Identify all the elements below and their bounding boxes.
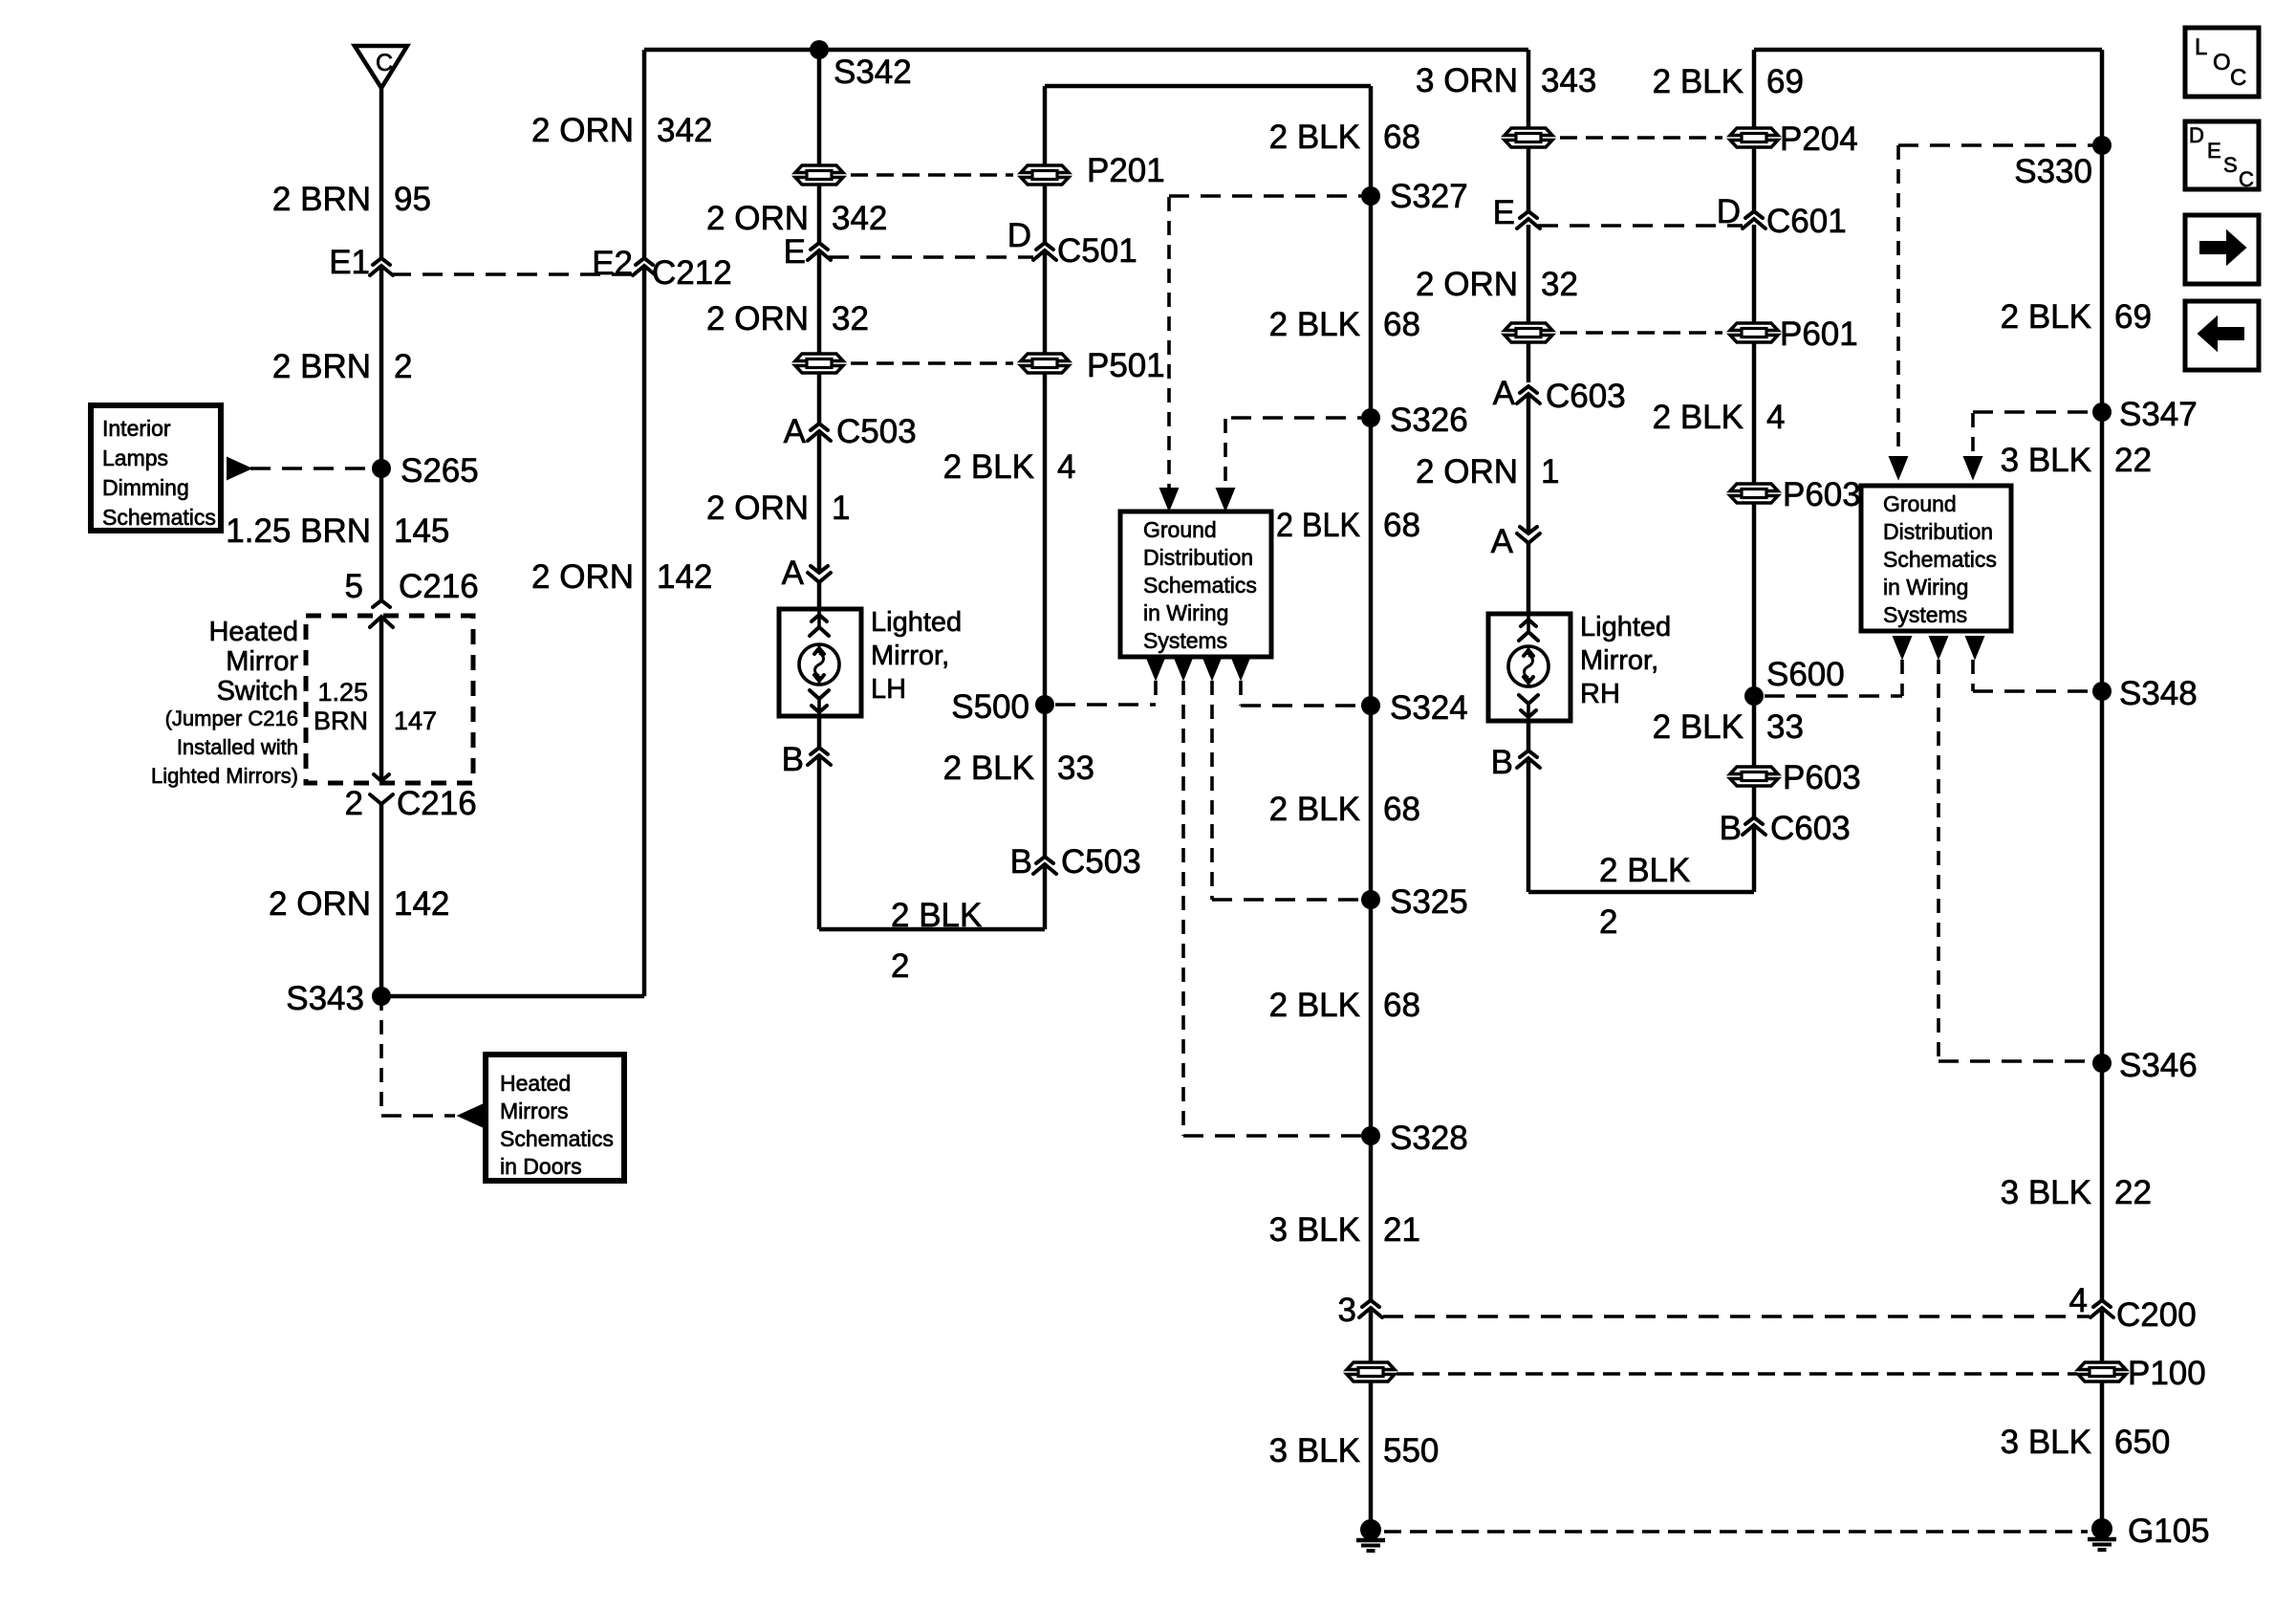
dashed arrows out of ground box bottom (1147, 658, 1249, 679)
svg-text:B: B (1491, 744, 1513, 781)
svg-text:E: E (1493, 194, 1515, 231)
label 2 BLK 68 fourth (1269, 791, 1420, 828)
wire 3 BLK 550 (P100 to G105) (1369, 1382, 1374, 1530)
label Lighted Mirror RH (1580, 612, 1671, 709)
svg-text:B: B (1010, 843, 1032, 881)
svg-text:21: 21 (1383, 1211, 1420, 1249)
wire P204 to C601 D (1752, 148, 1757, 214)
wire 2 BLK 68 (S327 to S326) (1369, 196, 1374, 418)
svg-text:Mirrors: Mirrors (500, 1099, 569, 1123)
dashed link ground box to S325 (1212, 681, 1361, 900)
svg-text:G105: G105 (2128, 1512, 2210, 1550)
dashed link G105 (1384, 1530, 2088, 1534)
svg-text:S600: S600 (1766, 656, 1845, 693)
dashed link C601 E to D (1538, 224, 1743, 228)
svg-text:P501: P501 (1087, 347, 1165, 384)
connector mirror RH pin B (1491, 744, 1540, 781)
svg-text:Systems: Systems (1883, 602, 1967, 627)
svg-text:2 ORN: 2 ORN (1416, 266, 1518, 303)
svg-text:Installed with: Installed with (177, 735, 298, 759)
connector mirror LH pin A (782, 555, 831, 592)
label 3 BLK 650 (2001, 1424, 2171, 1461)
svg-text:342: 342 (657, 112, 712, 149)
dashed arrows out of right ground box (1894, 637, 1983, 658)
label 2 ORN 342 upper (531, 112, 712, 149)
dashed link right ground box to S348 (1973, 660, 2092, 691)
wire 2 ORN 142 (C216 to S343) (379, 804, 384, 996)
svg-text:2 BLK: 2 BLK (1653, 399, 1744, 436)
svg-text:C501: C501 (1057, 232, 1137, 270)
jumper wire 1.25 BRN 147 inside switch (379, 617, 384, 781)
wire C601 to P601 (1752, 225, 1757, 322)
svg-text:S500: S500 (951, 688, 1029, 726)
svg-text:C200: C200 (2116, 1296, 2197, 1334)
svg-text:3 BLK: 3 BLK (1269, 1432, 1360, 1469)
wire 2 ORN 1 (C503 to mirror pin A) (817, 434, 822, 573)
svg-text:S348: S348 (2119, 675, 2198, 712)
label 2 BLK 68 third (1276, 507, 1420, 544)
svg-text:2 ORN: 2 ORN (706, 490, 809, 527)
wire C200 to P100 (1369, 1311, 1374, 1361)
power feed triangle C (355, 46, 407, 88)
svg-text:BRN: BRN (314, 707, 368, 735)
svg-text:Switch: Switch (217, 676, 298, 707)
junction S347 (2092, 396, 2198, 433)
svg-text:S343: S343 (286, 980, 364, 1017)
svg-text:2 BLK: 2 BLK (1269, 791, 1360, 828)
junction S348 (2092, 675, 2198, 712)
label 3 BLK 550 (1269, 1432, 1440, 1469)
svg-text:S324: S324 (1390, 689, 1468, 727)
svg-text:Mirror,: Mirror, (871, 641, 949, 671)
svg-text:S265: S265 (401, 452, 479, 490)
label 2 BLK 33 left (943, 750, 1094, 787)
connector mirror LH pin B (782, 741, 831, 778)
svg-text:A: A (1493, 375, 1516, 412)
svg-text:Ground: Ground (1143, 517, 1217, 542)
label 2 BLK 4 left (943, 448, 1076, 486)
svg-text:S328: S328 (1390, 1120, 1468, 1157)
svg-text:4: 4 (1766, 399, 1785, 436)
svg-text:142: 142 (394, 885, 449, 923)
dashed arrows into ground box top (1160, 489, 1234, 510)
label 2 BLK 68 fifth (1269, 987, 1420, 1024)
connector mirror RH pin A (1491, 523, 1540, 560)
svg-text:A: A (782, 555, 805, 592)
legend box DESC (2185, 121, 2259, 191)
wire 2 BLK 68 (top corner to S327) (1369, 86, 1374, 196)
label 2 BLK 68 second (1269, 306, 1420, 343)
mirror LH internal bottom pin (810, 690, 829, 716)
wire pin A to mirror box (1527, 543, 1531, 614)
label 2 ORN 142 left (269, 885, 449, 923)
wire 2 ORN 32 (C501 to P501) (817, 253, 822, 353)
junction S346 (2092, 1047, 2198, 1084)
svg-text:S327: S327 (1390, 178, 1468, 215)
label 2 BRN 2 (272, 348, 413, 385)
svg-text:3 BLK: 3 BLK (2001, 1174, 2091, 1211)
svg-text:2 BLK: 2 BLK (1269, 306, 1360, 343)
svg-text:2 BLK: 2 BLK (1276, 507, 1360, 544)
label 2 BLK 2 (891, 897, 982, 985)
svg-text:D: D (2189, 123, 2204, 147)
wire 2 BRN 95 (triangle C to E1) (379, 88, 384, 258)
lighted mirror RH box (1488, 614, 1570, 721)
label 2 BLK 33 right (1653, 708, 1804, 746)
label 3 ORN 343 (1416, 62, 1596, 99)
label 3 BLK 21 (1269, 1211, 1420, 1249)
svg-text:P204: P204 (1780, 120, 1858, 158)
dashed link P204 (1560, 136, 1722, 140)
connector C503 pin A (784, 413, 917, 450)
svg-text:S330: S330 (2014, 153, 2092, 190)
svg-text:69: 69 (2114, 298, 2152, 336)
svg-text:Schematics: Schematics (500, 1126, 614, 1151)
svg-text:2 ORN: 2 ORN (531, 558, 634, 596)
label 2 ORN 1 right (1416, 453, 1559, 490)
connector C216 pin 2 (345, 785, 477, 822)
callout box Ground Distribution right (1861, 486, 2011, 631)
svg-text:2 ORN: 2 ORN (269, 885, 371, 923)
svg-text:Mirror,: Mirror, (1580, 645, 1658, 676)
svg-text:C212: C212 (652, 254, 732, 292)
svg-text:E1: E1 (329, 244, 370, 281)
connector P601 left half (1505, 323, 1552, 342)
svg-text:4: 4 (2069, 1282, 2088, 1319)
svg-text:C603: C603 (1770, 810, 1851, 847)
svg-text:E: E (784, 233, 806, 271)
svg-text:Schematics: Schematics (1883, 547, 1997, 572)
wire C503 B to bottom corner (1043, 864, 1048, 929)
legend box LOC (2185, 28, 2259, 97)
connector C601 pin E (1493, 194, 1540, 231)
label 2 ORN 142 lower (531, 558, 712, 596)
svg-text:C603: C603 (1546, 378, 1626, 415)
svg-text:68: 68 (1383, 507, 1420, 544)
wire 2 ORN 342 riser (top bus to S343) (642, 50, 647, 996)
svg-text:A: A (784, 413, 807, 450)
ground G105 left (1356, 1519, 1385, 1551)
mirror RH internal bottom pin (1519, 695, 1538, 721)
junction S265 (372, 452, 479, 490)
svg-text:33: 33 (1766, 708, 1804, 746)
wire 2 BLK 2 (pin B down and over to x1835) (1528, 761, 1754, 892)
wire pin A to mirror box (817, 582, 822, 609)
dashed link P601 (1560, 331, 1722, 335)
wire mirror box to pin B (1527, 721, 1531, 751)
wire 2 BLK 33 (S600 to P603) (1752, 696, 1757, 766)
label Heated Mirror Switch (151, 617, 298, 788)
svg-text:2 ORN: 2 ORN (1416, 453, 1518, 490)
svg-text:C: C (376, 50, 393, 76)
svg-text:2 ORN: 2 ORN (531, 112, 634, 149)
svg-text:550: 550 (1383, 1432, 1439, 1469)
connector P100 right half (2078, 1355, 2206, 1392)
svg-text:69: 69 (1766, 63, 1804, 100)
svg-text:Ground: Ground (1883, 491, 1957, 516)
wire 2 BRN 2 (E1 to S265) (379, 269, 384, 468)
callout box Interior Lamps Dimming Schematics (91, 405, 221, 531)
heated mirror switch dashed outline (306, 616, 473, 783)
wire 3 BLK 22 (S347 to S348) (2100, 412, 2105, 691)
lamp LH (799, 644, 839, 685)
wire top corner to S330 (2100, 50, 2105, 145)
svg-text:C216: C216 (399, 568, 479, 605)
dashed link S330 to right ground box (1898, 145, 2092, 473)
junction S325 (1361, 883, 1468, 921)
mirror RH internal top pin (1519, 614, 1538, 641)
label 2 BLK 68 first (1269, 119, 1420, 156)
svg-text:Dimming: Dimming (102, 475, 189, 500)
svg-text:in Wiring: in Wiring (1143, 600, 1228, 625)
wire 2 BLK 68 (S326 to S324) (1369, 418, 1374, 706)
svg-text:2 BLK: 2 BLK (1269, 119, 1360, 156)
svg-text:Systems: Systems (1143, 628, 1227, 653)
connector P201 right half (1021, 152, 1165, 189)
wire 2 BLK 69 (S330 to S347) (2100, 145, 2105, 412)
svg-text:1: 1 (1541, 453, 1559, 490)
dashed stub S343 down (381, 996, 455, 1116)
svg-text:Heated: Heated (208, 617, 298, 647)
label 2 ORN 32 left (706, 300, 869, 337)
ground G105 right (2088, 1512, 2210, 1550)
wire P601 to C603 A (1527, 343, 1531, 382)
svg-text:Schematics: Schematics (1143, 573, 1257, 598)
connector P204 left half (1505, 128, 1552, 147)
wire C501 to P501 (1043, 253, 1048, 353)
wire 2 BLK 4 (P501 to S500) (1043, 374, 1048, 705)
svg-text:68: 68 (1383, 119, 1420, 156)
wire 1.25 BRN 145 (S265 to C216 pin 5) (379, 468, 384, 599)
wire P204 to C601 E (1527, 148, 1531, 214)
connector P603 lower (1730, 759, 1861, 796)
svg-text:C503: C503 (1061, 843, 1141, 881)
connector C212 pin E2 (592, 245, 731, 292)
svg-text:2 BRN: 2 BRN (272, 348, 371, 385)
svg-text:650: 650 (2114, 1424, 2170, 1461)
wire 3 BLK 21 (S328 to C200 pin 3) (1369, 1136, 1374, 1300)
svg-text:C601: C601 (1766, 203, 1847, 240)
wire 2 BLK 68 (S325 to S328) (1369, 900, 1374, 1136)
wire S343 to second riser (381, 994, 644, 999)
connector C601 pin D (1717, 193, 1847, 240)
svg-text:5: 5 (345, 568, 363, 605)
wire 3 BLK 22 (S348 to S346) (2100, 691, 2105, 1063)
svg-text:32: 32 (1541, 266, 1578, 303)
svg-text:2 ORN: 2 ORN (706, 200, 809, 237)
svg-text:1.25 BRN: 1.25 BRN (226, 512, 371, 550)
svg-text:P603: P603 (1783, 759, 1861, 796)
dashed link S347 to right ground box (1973, 412, 2092, 473)
wire P201 to C501 D (1043, 185, 1048, 243)
svg-text:2 BLK: 2 BLK (1599, 852, 1690, 889)
svg-text:Interior: Interior (102, 416, 171, 441)
svg-text:1: 1 (832, 490, 850, 527)
svg-text:E: E (2207, 139, 2221, 163)
junction S326 (1361, 402, 1468, 439)
label 1.25 BRN 145 (226, 512, 449, 550)
connector C603 pin A (1493, 375, 1626, 415)
svg-text:P201: P201 (1087, 152, 1165, 189)
svg-text:2 BLK: 2 BLK (1269, 987, 1360, 1024)
connector C603 pin B (1720, 810, 1851, 847)
svg-text:2 BLK: 2 BLK (891, 897, 982, 934)
junction S600 (1744, 656, 1845, 706)
wire riser top (P201 right to top corner) (1045, 86, 1371, 164)
svg-text:A: A (1491, 523, 1514, 560)
callout box Ground Distribution left (1120, 511, 1271, 657)
wire P501 to C503 A (817, 374, 822, 424)
svg-text:S347: S347 (2119, 396, 2198, 433)
connector P201 left half (795, 165, 843, 185)
svg-text:(Jumper C216: (Jumper C216 (165, 707, 298, 730)
wire S342 to P201 (817, 50, 822, 164)
svg-text:D: D (1007, 217, 1031, 254)
svg-text:S342: S342 (834, 54, 912, 91)
svg-text:S325: S325 (1390, 883, 1468, 921)
svg-text:3 BLK: 3 BLK (2001, 442, 2091, 479)
dashed link P201 (851, 173, 1013, 177)
wire 2 BLK 2 (pin B down and over to x1093) (819, 758, 1045, 929)
svg-text:33: 33 (1057, 750, 1094, 787)
wire P603 to C603 B (1752, 787, 1757, 817)
wire S346 to C200 pin 4 (2100, 1063, 2105, 1300)
wire 2 BLK 4 (P601 to P603) (1752, 343, 1757, 483)
svg-text:in Doors: in Doors (500, 1154, 582, 1179)
connector C501 pin E (784, 233, 831, 271)
svg-text:68: 68 (1383, 791, 1420, 828)
svg-text:S346: S346 (2119, 1047, 2198, 1084)
connector P603 upper (1730, 476, 1861, 513)
junction S500 (951, 688, 1054, 726)
svg-text:2 BLK: 2 BLK (1653, 708, 1744, 746)
svg-text:1.25: 1.25 (317, 678, 368, 707)
junction S330 (2014, 136, 2112, 190)
svg-text:P601: P601 (1780, 315, 1858, 353)
svg-text:3 BLK: 3 BLK (1269, 1211, 1360, 1249)
svg-text:O: O (2213, 50, 2231, 76)
wire 2 ORN 32 (C601 to P601) (1527, 225, 1531, 322)
dashed link S326 to ground box (1225, 418, 1361, 501)
connector P601 right half (1730, 315, 1858, 353)
wire 3 ORN 343 (top bus to P204) (1527, 50, 1531, 127)
wire 2 ORN 1 (C603 to mirror pin A) (1527, 393, 1531, 533)
label Lighted Mirror LH (871, 607, 962, 705)
svg-text:P100: P100 (2128, 1355, 2206, 1392)
wire riser top (P204 right to top corner) (1754, 50, 2102, 127)
lamp RH (1508, 646, 1549, 686)
junction S343 (286, 980, 391, 1017)
connector P501 right half (1021, 347, 1165, 384)
connector P501 left half (795, 354, 843, 373)
svg-text:2 BRN: 2 BRN (272, 181, 371, 218)
svg-text:C: C (2230, 65, 2246, 91)
svg-text:D: D (1717, 193, 1741, 230)
connector P100 left half (1347, 1362, 1395, 1382)
svg-text:2: 2 (1599, 903, 1617, 941)
svg-text:C: C (2239, 167, 2254, 191)
connector C503 pin B (1010, 843, 1141, 881)
dashed link S500 to ground box (1055, 681, 1156, 705)
connector C212 pin E1 (329, 244, 393, 281)
svg-text:S: S (2223, 153, 2238, 177)
dashed link E1 to E2 (C212) (391, 272, 634, 276)
svg-text:145: 145 (394, 512, 449, 550)
svg-text:68: 68 (1383, 306, 1420, 343)
connector C200 pin 3 (1338, 1292, 1382, 1329)
dashed arrows into right ground box (1890, 457, 1982, 478)
svg-text:P603: P603 (1783, 476, 1861, 513)
svg-text:Mirror: Mirror (226, 646, 298, 677)
dashed link S600 to ground box (1765, 660, 1902, 696)
svg-text:B: B (1720, 810, 1742, 847)
svg-text:B: B (782, 741, 804, 778)
svg-text:22: 22 (2114, 442, 2152, 479)
label 2 BLK 2 right (1599, 852, 1690, 941)
svg-text:2 BLK: 2 BLK (2001, 298, 2091, 336)
svg-text:68: 68 (1383, 987, 1420, 1024)
mirror LH internal top pin (810, 609, 829, 636)
wire 2 BLK 68 (S324 to S325) (1369, 706, 1374, 900)
svg-text:C503: C503 (836, 413, 917, 450)
svg-text:Lamps: Lamps (102, 446, 168, 470)
wire 3 BLK 650 (P100 to G105) (2100, 1382, 2105, 1529)
dashed link P100 (1397, 1372, 2077, 1376)
label 2 ORN 32 right (1416, 266, 1578, 303)
svg-text:3 BLK: 3 BLK (2001, 1424, 2091, 1461)
dashed link ground box to S328 (1183, 681, 1361, 1136)
svg-text:E2: E2 (592, 245, 633, 282)
connector C216 pin 5 (345, 568, 479, 627)
label 2 BLK 69 lower (2001, 298, 2152, 336)
svg-text:Lighted: Lighted (871, 607, 962, 638)
dashed link C200 pins 3 to 4 (1383, 1315, 2090, 1318)
lighted mirror LH box (779, 609, 861, 716)
svg-text:Distribution: Distribution (1883, 519, 1993, 544)
connector P204 right half (1730, 120, 1858, 158)
svg-text:4: 4 (1057, 448, 1075, 486)
dashed link S327 to ground box (1169, 196, 1361, 501)
svg-text:RH: RH (1580, 679, 1620, 709)
svg-text:Schematics: Schematics (102, 505, 216, 530)
svg-text:C216: C216 (397, 785, 477, 822)
svg-text:2 BLK: 2 BLK (943, 448, 1034, 486)
label 3 BLK 22 first (2001, 442, 2152, 479)
callout box Heated Mirrors Schematics in Doors (486, 1055, 624, 1181)
svg-text:32: 32 (832, 300, 869, 337)
svg-text:Heated: Heated (500, 1071, 571, 1096)
svg-text:in Wiring: in Wiring (1883, 575, 1968, 599)
svg-text:342: 342 (832, 200, 887, 237)
dashed link right ground box to S346 (1939, 660, 2092, 1061)
legend box arrow right (2185, 215, 2259, 284)
svg-text:Lighted Mirrors): Lighted Mirrors) (151, 764, 298, 788)
label 2 BLK 4 right (1653, 399, 1786, 436)
connector C200 pin 4 (2069, 1282, 2197, 1334)
svg-text:S326: S326 (1390, 402, 1468, 439)
label 2 BRN 95 (272, 181, 431, 218)
label 3 BLK 22 second (2001, 1174, 2152, 1211)
svg-text:147: 147 (394, 707, 437, 735)
wire 2 BLK 33 (S500 to C503 B) (1043, 705, 1048, 857)
label 1.25 BRN 147 (314, 678, 437, 735)
label 2 ORN 342 at C501 (706, 200, 887, 237)
label 2 BLK 69 upper (1653, 63, 1804, 100)
wire 2 ORN 342 (P201 to C501 E) (817, 185, 822, 243)
svg-text:Distribution: Distribution (1143, 545, 1253, 570)
svg-text:2: 2 (345, 785, 363, 822)
wire P603 to S600 (1752, 504, 1757, 696)
